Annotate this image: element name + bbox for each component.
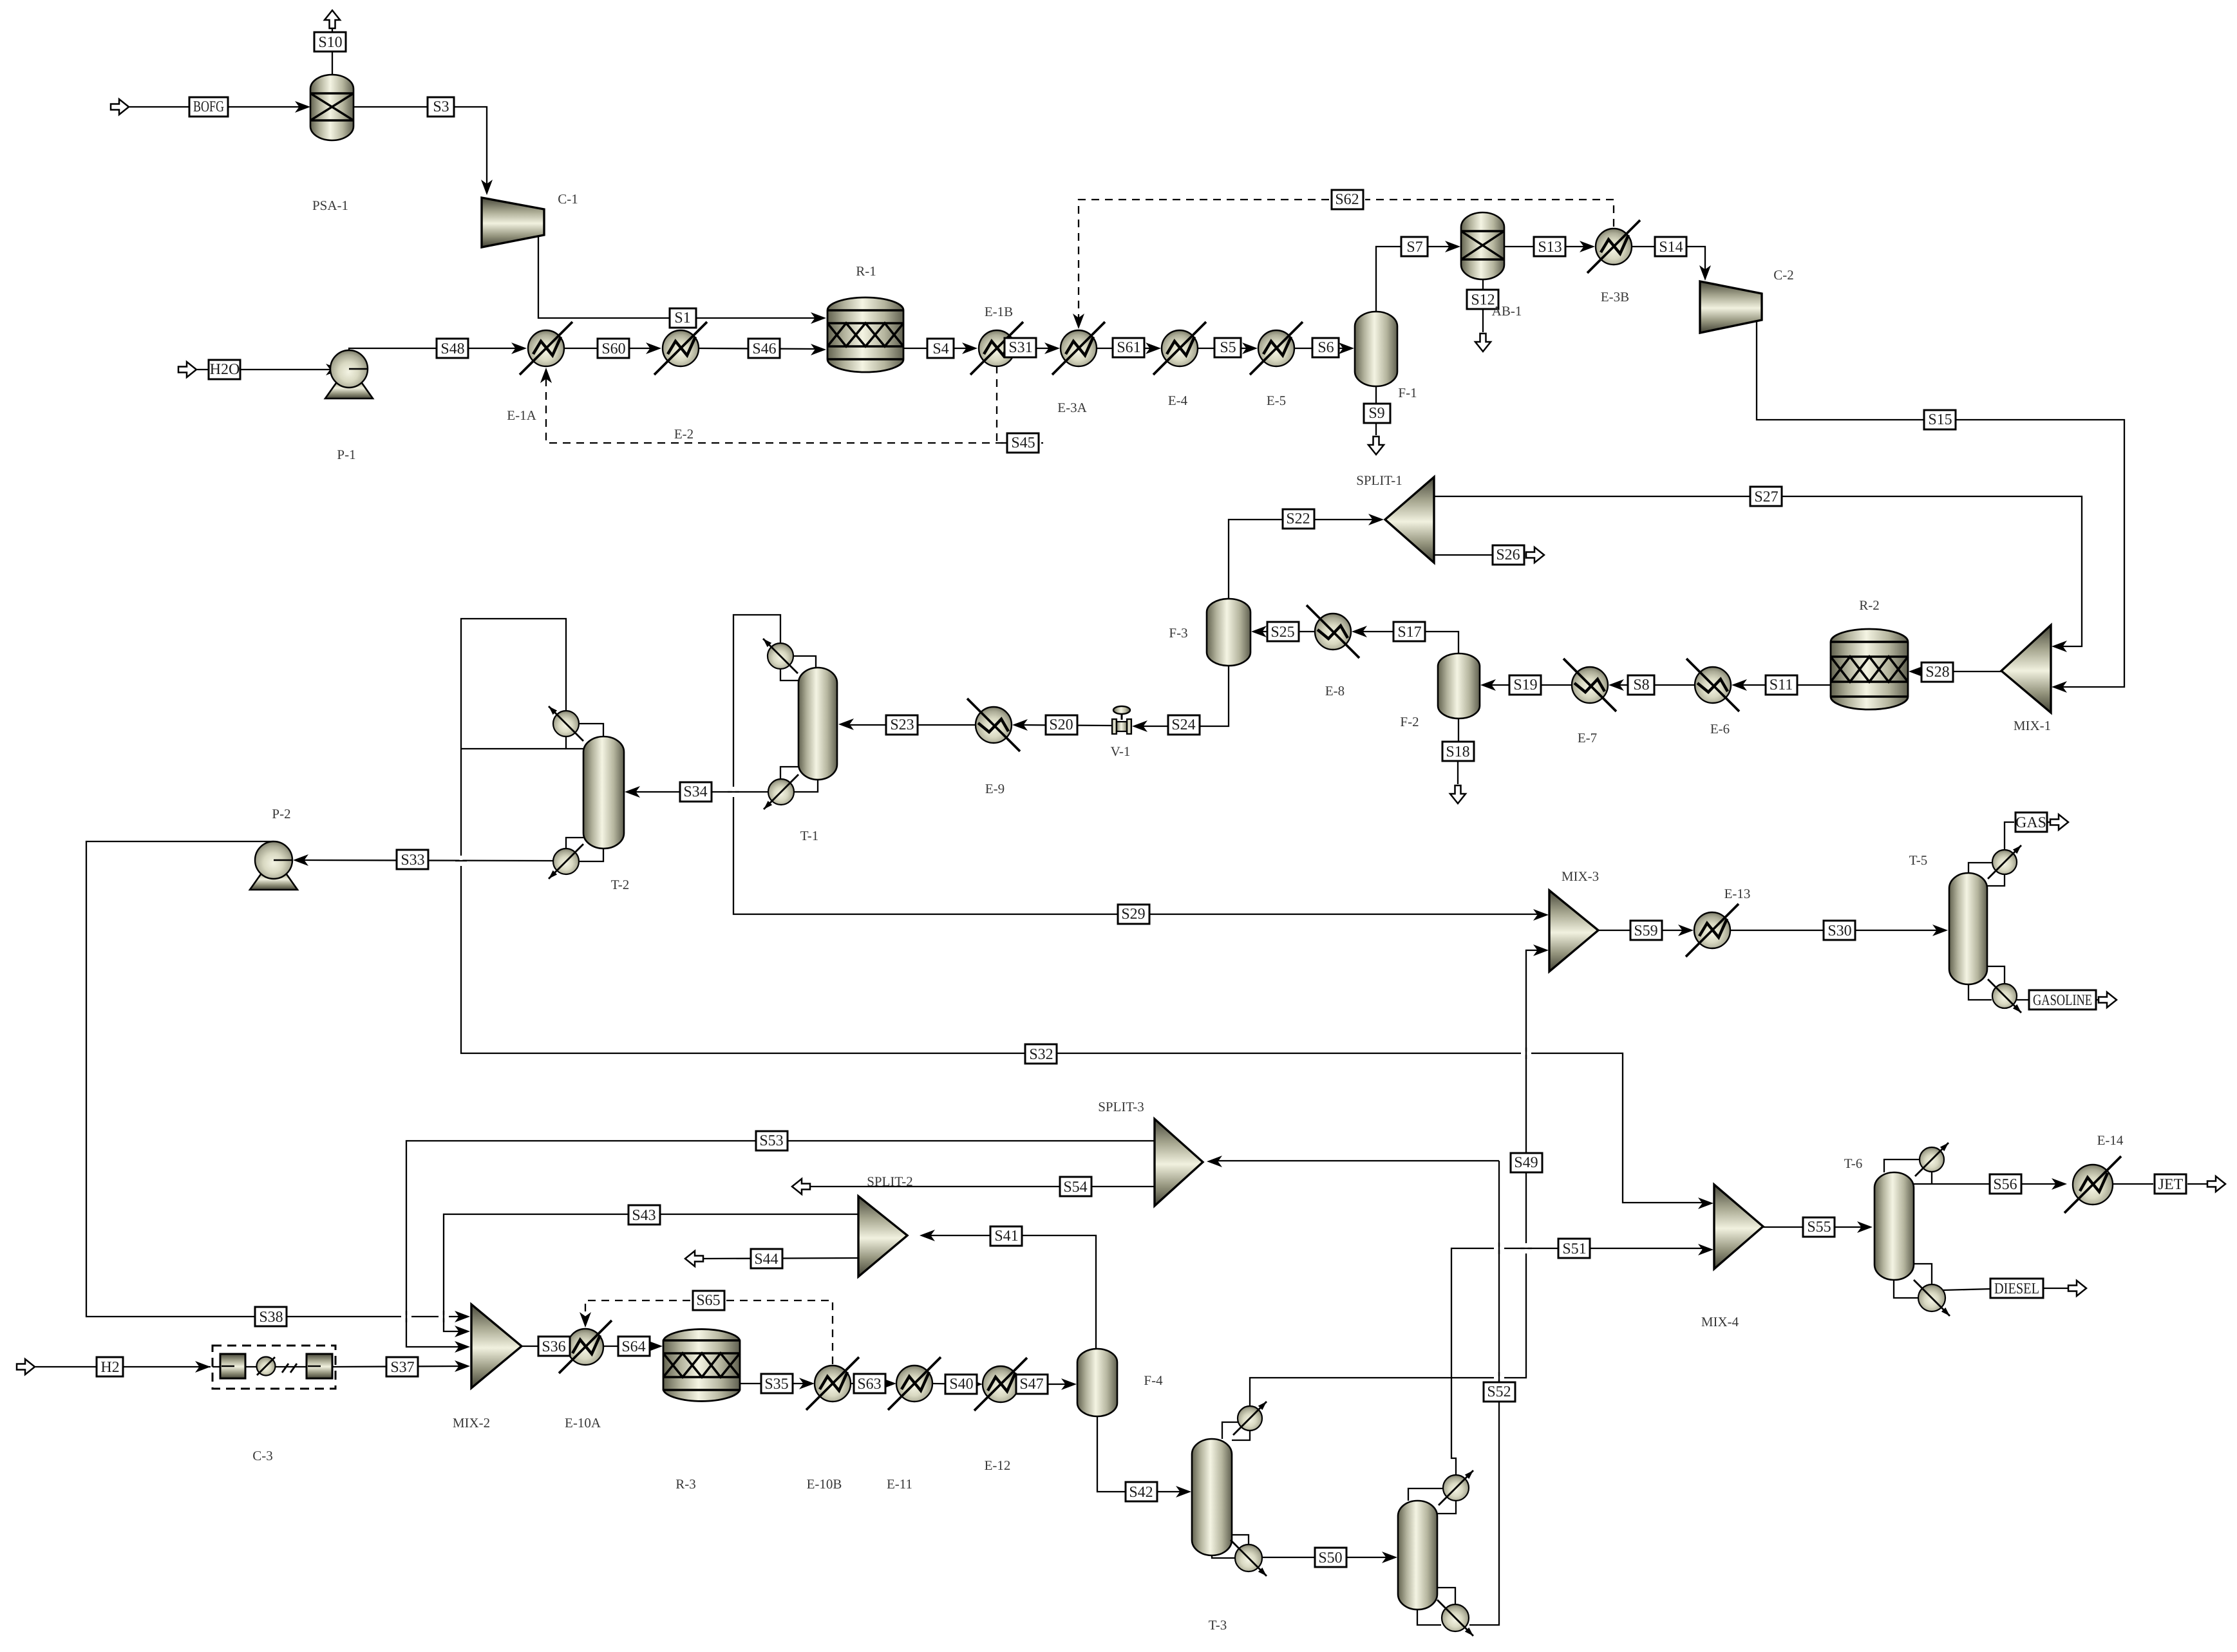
svg-text:S11: S11 [1770, 677, 1793, 693]
splitter SPLIT-3 [1155, 1119, 1203, 1206]
stream label S36 [538, 1337, 570, 1356]
pump P-2 [250, 868, 297, 890]
wire T-6 reboiler vapor [1914, 1264, 1932, 1284]
svg-text:S13: S13 [1538, 239, 1562, 256]
stream label S20 [1046, 715, 1077, 735]
stream label S13 [1534, 237, 1565, 256]
svg-text:P-2: P-2 [272, 806, 290, 821]
svg-text:S27: S27 [1754, 489, 1778, 505]
wire E-6 to S8 to E-7 [1616, 684, 1695, 686]
stream label S12 [1467, 290, 1498, 309]
wire E-10B to S63 to E-11 [850, 1383, 889, 1384]
condenser of T-6 [1920, 1147, 1944, 1172]
heat exchanger E-5 [1258, 330, 1294, 366]
canister 2 of C-3 [307, 1354, 332, 1378]
stream label BOFG [189, 97, 228, 117]
svg-text:S22: S22 [1286, 511, 1310, 527]
svg-text:S62: S62 [1335, 191, 1359, 208]
stream label S19 [1509, 675, 1541, 695]
heat exchanger E-1A [528, 330, 564, 366]
svg-text:S61: S61 [1117, 339, 1140, 356]
svg-text:SPLIT-2: SPLIT-2 [867, 1174, 913, 1189]
stream label H2 [97, 1357, 123, 1376]
wire E-14 to JET product [2113, 1183, 2153, 1185]
wire T-1 distillate to S29 to MIX-3 [733, 615, 1542, 914]
stream label S46 [748, 339, 780, 358]
stream label S32 [1025, 1044, 1057, 1064]
stream label S50 [1315, 1548, 1346, 1567]
wire T-1 reboiler vapor [780, 767, 798, 778]
svg-text:E-1A: E-1A [507, 408, 536, 423]
wire C-1 outlet S1 to R-1 [538, 236, 818, 318]
stream label S33 [397, 850, 428, 869]
svg-text:S32: S32 [1029, 1046, 1053, 1063]
stream label GASOLINE [2029, 990, 2096, 1009]
flash drum F-3 [1207, 599, 1251, 666]
splitter SPLIT-2 [858, 1196, 907, 1277]
heat exchanger E-13 [1694, 912, 1730, 948]
stream label DIESEL [1990, 1279, 2043, 1298]
wire P-2 outlet to S38 to MIX-2 [86, 841, 462, 1317]
wire T-1 reboiler to S34 to T-2 [632, 791, 768, 793]
stream label H2O [209, 360, 240, 379]
wire E-5 to S6 to F-1 [1294, 348, 1346, 349]
wire E-12 to S47 to F-4 [1018, 1384, 1069, 1385]
svg-text:S30: S30 [1827, 923, 1851, 939]
wire MIX-1 outlet S28 to R-2 [1916, 671, 2001, 672]
mixer MIX-3 [1549, 890, 1598, 971]
meter circle of C-3 [257, 1357, 276, 1376]
stream label S55 [1803, 1217, 1835, 1237]
stream label S65 [693, 1291, 724, 1310]
compressor C-2 [1700, 281, 1762, 333]
heat exchanger E-4 [1162, 330, 1198, 366]
svg-text:AB-1: AB-1 [1492, 303, 1522, 319]
splitter SPLIT-1 [1385, 477, 1434, 563]
wire T-4 condenser loop [1408, 1488, 1442, 1501]
purge arrow S44 [685, 1251, 703, 1266]
svg-text:C-3: C-3 [252, 1448, 273, 1463]
mixer MIX-1 [2001, 625, 2051, 713]
wire P-1 to S48 to E-1A [349, 348, 519, 350]
svg-text:JET: JET [2158, 1176, 2184, 1193]
wire E-3A to S61 to E-4 [1097, 348, 1153, 349]
svg-text:S6: S6 [1317, 339, 1334, 356]
wire BOFG feed to PSA-1 [129, 106, 303, 108]
wire V-1 to S20 to E-9 [1019, 725, 1113, 726]
heat exchanger E-10A [567, 1329, 603, 1365]
stream label S61 [1113, 338, 1144, 357]
svg-text:MIX-4: MIX-4 [1701, 1314, 1739, 1329]
heat exchanger E-8 [1315, 614, 1351, 650]
svg-text:S23: S23 [890, 717, 914, 733]
svg-text:MIX-2: MIX-2 [453, 1415, 490, 1431]
wire T-2 distillate to S32 to MIX-4 [461, 619, 1706, 1203]
vent arrow above S10 [325, 10, 340, 28]
svg-text:S10: S10 [318, 34, 342, 51]
wire F-1 top to S7 to AB-1 [1376, 247, 1453, 312]
svg-text:S55: S55 [1807, 1219, 1831, 1235]
svg-text:S17: S17 [1397, 624, 1421, 641]
svg-text:S35: S35 [764, 1376, 788, 1393]
stream label S45 [1007, 433, 1039, 453]
stream label S63 [854, 1374, 885, 1393]
svg-text:S25: S25 [1270, 624, 1294, 641]
wire E-1B to S31 to E-3A [1015, 348, 1052, 349]
svg-text:S20: S20 [1049, 717, 1073, 733]
stream label S15 [1924, 410, 1956, 429]
wire E-13 to S30 to T-5 [1730, 930, 1940, 931]
reboiler of T-4 [1442, 1604, 1469, 1631]
wire T-6 distillate S56 to E-14 [1914, 1183, 2059, 1185]
wire SPLIT-1 lower outlet S26 purge [1434, 554, 1525, 556]
stream label S59 [1630, 921, 1662, 940]
stream label S10 [314, 32, 346, 52]
stream label S54 [1060, 1177, 1091, 1196]
svg-text:E-9: E-9 [985, 781, 1005, 796]
wire SPLIT-2 lower outlet S44 purge [703, 1258, 858, 1259]
svg-text:S41: S41 [994, 1228, 1018, 1244]
stream label S24 [1168, 715, 1200, 735]
wire T-5 condenser loop [1968, 863, 1992, 873]
svg-text:E-3A: E-3A [1057, 400, 1087, 415]
wire T-4 distillate to S51 to MIX-4 [1451, 1248, 1706, 1475]
stream label S44 [751, 1249, 782, 1268]
hydrogen station C-3 dashed box [212, 1346, 335, 1389]
wire T-3 reboiler vapor [1232, 1535, 1249, 1544]
svg-text:T-1: T-1 [800, 828, 818, 843]
stream label S11 [1766, 675, 1797, 695]
wire R-1 to S4 to E-1B [903, 348, 970, 349]
svg-text:S31: S31 [1008, 339, 1032, 356]
wire F-4 bottom to S42 to T-3 [1097, 1416, 1184, 1492]
wire T-3 condenser loop [1222, 1422, 1238, 1439]
stream label S27 [1750, 487, 1782, 506]
stream label S4 [927, 339, 954, 358]
wire F-3 top to S22 to SPLIT-1 [1229, 520, 1375, 599]
purge arrow S9 [1368, 436, 1384, 455]
stream label S3 [428, 97, 454, 117]
tower T-6 [1874, 1172, 1914, 1280]
tower T-2 [583, 737, 624, 849]
wire T-2 reboiler vapor [566, 838, 583, 848]
tower T-5 [1949, 873, 1987, 984]
stream label S5 [1214, 338, 1241, 357]
svg-text:T-3: T-3 [1209, 1617, 1227, 1633]
stream label S43 [628, 1205, 660, 1225]
wire SPLIT-2 upper outlet S43 to MIX-2 [444, 1214, 858, 1331]
wire SPLIT-1 upper outlet S27 to MIX-1 [1434, 496, 2082, 646]
wire F-3 bottom to S24 to V-1 [1140, 666, 1229, 726]
stream label S53 [756, 1131, 788, 1150]
stream label S64 [618, 1337, 650, 1356]
svg-text:S24: S24 [1171, 717, 1195, 733]
valve V-1 [1121, 710, 1123, 720]
wire T-6 condenser loop [1884, 1159, 1919, 1172]
wire T-4 reboiler to S52 riser to SPLIT-3 [1469, 1161, 1499, 1625]
wire T-4 reboiler vapor [1437, 1588, 1455, 1604]
wire dashed S45 E-1B to E-1A [997, 366, 1043, 443]
heat exchanger E-1B [979, 330, 1015, 366]
svg-text:S38: S38 [259, 1309, 283, 1326]
stream label S25 [1267, 622, 1299, 641]
condenser of T-1 [768, 643, 793, 669]
svg-text:S8: S8 [1633, 677, 1649, 693]
wire H2O feed to P-1 [197, 369, 341, 370]
svg-text:E-1B: E-1B [985, 304, 1013, 319]
stream label S35 [761, 1374, 793, 1393]
tower T-1 [798, 668, 837, 780]
wire T-6 bottoms to reboiler [1894, 1280, 1918, 1298]
stream label S6 [1312, 338, 1339, 357]
feed arrow H2O [178, 362, 196, 377]
svg-text:H2O: H2O [210, 361, 240, 378]
svg-text:S33: S33 [401, 852, 424, 868]
stream label S26 [1493, 545, 1524, 565]
svg-text:R-1: R-1 [856, 263, 876, 279]
wire T-3 distillate to S49 to MIX-3 [1250, 950, 1542, 1407]
svg-text:S19: S19 [1513, 677, 1537, 693]
product arrow GASOLINE [2099, 992, 2117, 1008]
wire T-1 bottoms to reboiler [795, 780, 818, 792]
svg-text:SPLIT-3: SPLIT-3 [1098, 1099, 1144, 1114]
wire SPLIT-3 feed branch from S52 riser [1214, 1160, 1499, 1161]
wire T-3 bottoms to reboiler [1212, 1555, 1234, 1558]
wire T-5 bottoms to reboiler [1968, 984, 1992, 1000]
svg-text:H2: H2 [100, 1359, 119, 1376]
stream label S51 [1558, 1239, 1590, 1258]
stream label S37 [386, 1357, 418, 1376]
wire E-4 to S5 to E-5 [1198, 348, 1250, 349]
wire SPLIT-3 lower outlet S54 purge [810, 1186, 1155, 1187]
svg-text:S29: S29 [1121, 906, 1145, 923]
svg-text:S53: S53 [759, 1132, 783, 1149]
flash drum F-1 [1355, 312, 1397, 386]
stream label S29 [1118, 905, 1149, 924]
adsorber AB-1 [1461, 212, 1504, 279]
canister 1 of C-3 [220, 1354, 245, 1378]
reboiler of T-6 [1918, 1284, 1945, 1311]
svg-text:BOFG: BOFG [193, 99, 224, 115]
tower T-4 [1398, 1501, 1437, 1610]
svg-text:E-10B: E-10B [807, 1476, 842, 1492]
wire MIX-3 outlet S59 to E-13 [1598, 930, 1686, 931]
wire E-11 to S40 to E-12 [932, 1384, 975, 1384]
wire dashed S65 E-10B to E-10A [726, 1300, 833, 1364]
wire T-4 bottoms to reboiler [1417, 1610, 1441, 1625]
svg-text:S26: S26 [1496, 547, 1520, 563]
wire AB-1 bottom to S12 purge [1482, 279, 1484, 290]
tower T-3 [1192, 1439, 1232, 1555]
svg-text:S9: S9 [1368, 405, 1384, 422]
heat exchanger E-14 [2073, 1165, 2113, 1205]
adsorber PSA-1 [310, 75, 354, 140]
svg-text:E-5: E-5 [1267, 393, 1286, 408]
stream label S38 [255, 1307, 287, 1326]
svg-text:R-3: R-3 [675, 1476, 696, 1492]
svg-text:E-12: E-12 [985, 1458, 1011, 1473]
reactor R-2 [1831, 629, 1908, 709]
svg-text:S45: S45 [1011, 435, 1035, 451]
wire MIX-4 outlet S55 to T-6 [1763, 1226, 1865, 1228]
svg-text:E-3B: E-3B [1601, 289, 1629, 305]
svg-text:S65: S65 [696, 1292, 720, 1309]
stream label S23 [886, 715, 918, 735]
stream label S47 [1016, 1375, 1048, 1394]
wire R-2 to S11 to E-6 [1739, 684, 1831, 686]
stream label JET [2155, 1174, 2186, 1194]
stream label S62 [1332, 190, 1363, 209]
wire E-1A to S60 to E-2 [564, 348, 654, 349]
stream label S40 [945, 1375, 977, 1394]
stream label S22 [1283, 509, 1314, 529]
wire PSA-1 top to S10 vent [332, 52, 333, 75]
heat exchanger E-11 [896, 1366, 932, 1402]
wire E-7 to S19 to F-2 [1488, 684, 1572, 686]
svg-text:E-8: E-8 [1325, 683, 1345, 699]
feed arrow H2 [17, 1359, 35, 1375]
stream label S18 [1442, 742, 1474, 761]
svg-text:S1: S1 [674, 310, 690, 326]
svg-text:S14: S14 [1659, 239, 1683, 256]
svg-text:S40: S40 [949, 1376, 973, 1393]
heat exchanger E-3A [1061, 330, 1097, 366]
svg-text:T-5: T-5 [1909, 852, 1927, 868]
svg-text:GAS: GAS [2015, 814, 2046, 831]
mixer MIX-2 [471, 1304, 522, 1388]
svg-text:E-4: E-4 [1168, 393, 1188, 408]
pump P-1 [325, 377, 373, 399]
wire C-2 outlet S15 to MIX-1 [1757, 320, 2124, 687]
svg-text:S37: S37 [390, 1359, 414, 1376]
svg-text:E-11: E-11 [887, 1476, 912, 1492]
svg-text:DIESEL: DIESEL [1994, 1281, 2039, 1297]
heat exchanger E-7 [1572, 667, 1608, 703]
purge arrow S18 [1450, 785, 1466, 803]
wire T-5 reboiler to GASOLINE product [2017, 999, 2030, 1000]
svg-text:S3: S3 [433, 99, 449, 115]
svg-text:E-6: E-6 [1710, 721, 1730, 737]
svg-text:S48: S48 [440, 341, 464, 357]
svg-text:P-1: P-1 [337, 447, 355, 462]
svg-text:E-13: E-13 [1724, 886, 1751, 901]
svg-text:S54: S54 [1063, 1179, 1087, 1196]
stream label S9 [1364, 404, 1390, 423]
condenser of T-5 [1992, 850, 2017, 874]
feed arrow BOFG [111, 99, 129, 115]
svg-text:S28: S28 [1925, 664, 1949, 681]
stream label S17 [1393, 622, 1425, 641]
svg-text:E-10A: E-10A [565, 1415, 601, 1431]
wire PSA-1 to S3 to C-1 [354, 107, 487, 187]
heat exchanger E-9 [976, 707, 1012, 743]
wire E-10A to S64 to R-3 [603, 1346, 655, 1347]
stream label S1 [670, 308, 696, 328]
product arrow JET [2207, 1176, 2225, 1192]
svg-text:S42: S42 [1129, 1484, 1153, 1501]
purge arrow S54 [792, 1179, 810, 1194]
svg-text:S36: S36 [542, 1338, 565, 1355]
heat exchanger E-2 [663, 330, 699, 366]
svg-text:S43: S43 [632, 1207, 656, 1224]
wire T-1 condenser loop [793, 656, 816, 668]
wire MIX-2 outlet S36 to E-10A [522, 1346, 559, 1347]
product arrow S26 [1526, 547, 1544, 563]
svg-text:S15: S15 [1928, 411, 1952, 428]
heat exchanger E-3B [1596, 229, 1632, 265]
svg-text:F-4: F-4 [1144, 1373, 1163, 1388]
wire T-5 gas product [2005, 822, 2014, 850]
flash drum F-2 [1438, 653, 1480, 718]
compressor C-1 [482, 198, 544, 247]
svg-text:S51: S51 [1562, 1241, 1586, 1257]
condenser of T-2 [553, 711, 579, 737]
svg-text:S4: S4 [932, 341, 949, 357]
svg-text:SPLIT-1: SPLIT-1 [1356, 473, 1402, 488]
svg-text:F-3: F-3 [1169, 625, 1187, 641]
wire T-6 reboiler to DIESEL product [1943, 1289, 1990, 1290]
stream label S8 [1628, 675, 1654, 695]
flash drum F-4 [1077, 1349, 1117, 1416]
svg-text:S50: S50 [1318, 1550, 1342, 1566]
wire T-3 reboiler to S50 to T-4 [1262, 1557, 1390, 1558]
wire E-3B to S14 to C-2 [1632, 247, 1705, 272]
heat exchanger E-6 [1695, 667, 1731, 703]
wire R-3 to S35 to E-10B [740, 1383, 807, 1384]
svg-text:T-6: T-6 [1844, 1156, 1862, 1171]
svg-text:S7: S7 [1406, 239, 1422, 256]
svg-text:F-1: F-1 [1398, 385, 1417, 400]
stream label S34 [680, 782, 712, 802]
svg-text:GASOLINE: GASOLINE [2033, 992, 2092, 1009]
stream label GAS [2015, 812, 2047, 832]
wire crossing gaps [401, 1315, 411, 1319]
stream label S31 [1005, 338, 1036, 357]
wire E-8 to S25 to F-3 [1259, 631, 1315, 632]
wire E-2 to S46 to R-1 [699, 348, 818, 349]
stream label S7 [1401, 237, 1428, 256]
stream label S49 [1511, 1153, 1542, 1172]
stream label S52 [1484, 1382, 1515, 1402]
svg-text:S18: S18 [1446, 744, 1469, 760]
svg-text:F-2: F-2 [1400, 714, 1419, 729]
reboiler of T-5 [1992, 984, 2017, 1008]
svg-text:S63: S63 [857, 1376, 881, 1393]
product arrow DIESEL [2068, 1281, 2086, 1296]
stream label S30 [1824, 921, 1855, 940]
svg-text:S46: S46 [752, 341, 776, 357]
purge arrow S12 [1475, 333, 1491, 352]
wire H2 feed through C-3 to S37 to MIX-2 [35, 1366, 211, 1367]
svg-text:T-2: T-2 [611, 877, 629, 892]
svg-text:S34: S34 [683, 784, 707, 800]
wire T-2 reboiler to S33 to P-2 [301, 860, 553, 861]
reactor R-1 [827, 297, 903, 372]
product arrow GAS [2050, 814, 2068, 830]
wire SPLIT-3 upper outlet S53 to MIX-2 [406, 1141, 1155, 1347]
svg-text:S44: S44 [754, 1251, 778, 1268]
wire F-2 bottom to S18 purge [1458, 718, 1459, 742]
svg-text:S47: S47 [1019, 1376, 1043, 1393]
wire E-9 to S23 to T-1 [845, 724, 976, 726]
reboiler of T-1 [768, 779, 794, 805]
reactor R-3 [663, 1329, 740, 1402]
svg-text:S49: S49 [1514, 1154, 1538, 1171]
svg-text:S64: S64 [621, 1338, 645, 1355]
svg-text:C-1: C-1 [558, 191, 578, 207]
condenser of T-3 [1238, 1406, 1262, 1431]
svg-text:MIX-1: MIX-1 [2014, 718, 2051, 733]
